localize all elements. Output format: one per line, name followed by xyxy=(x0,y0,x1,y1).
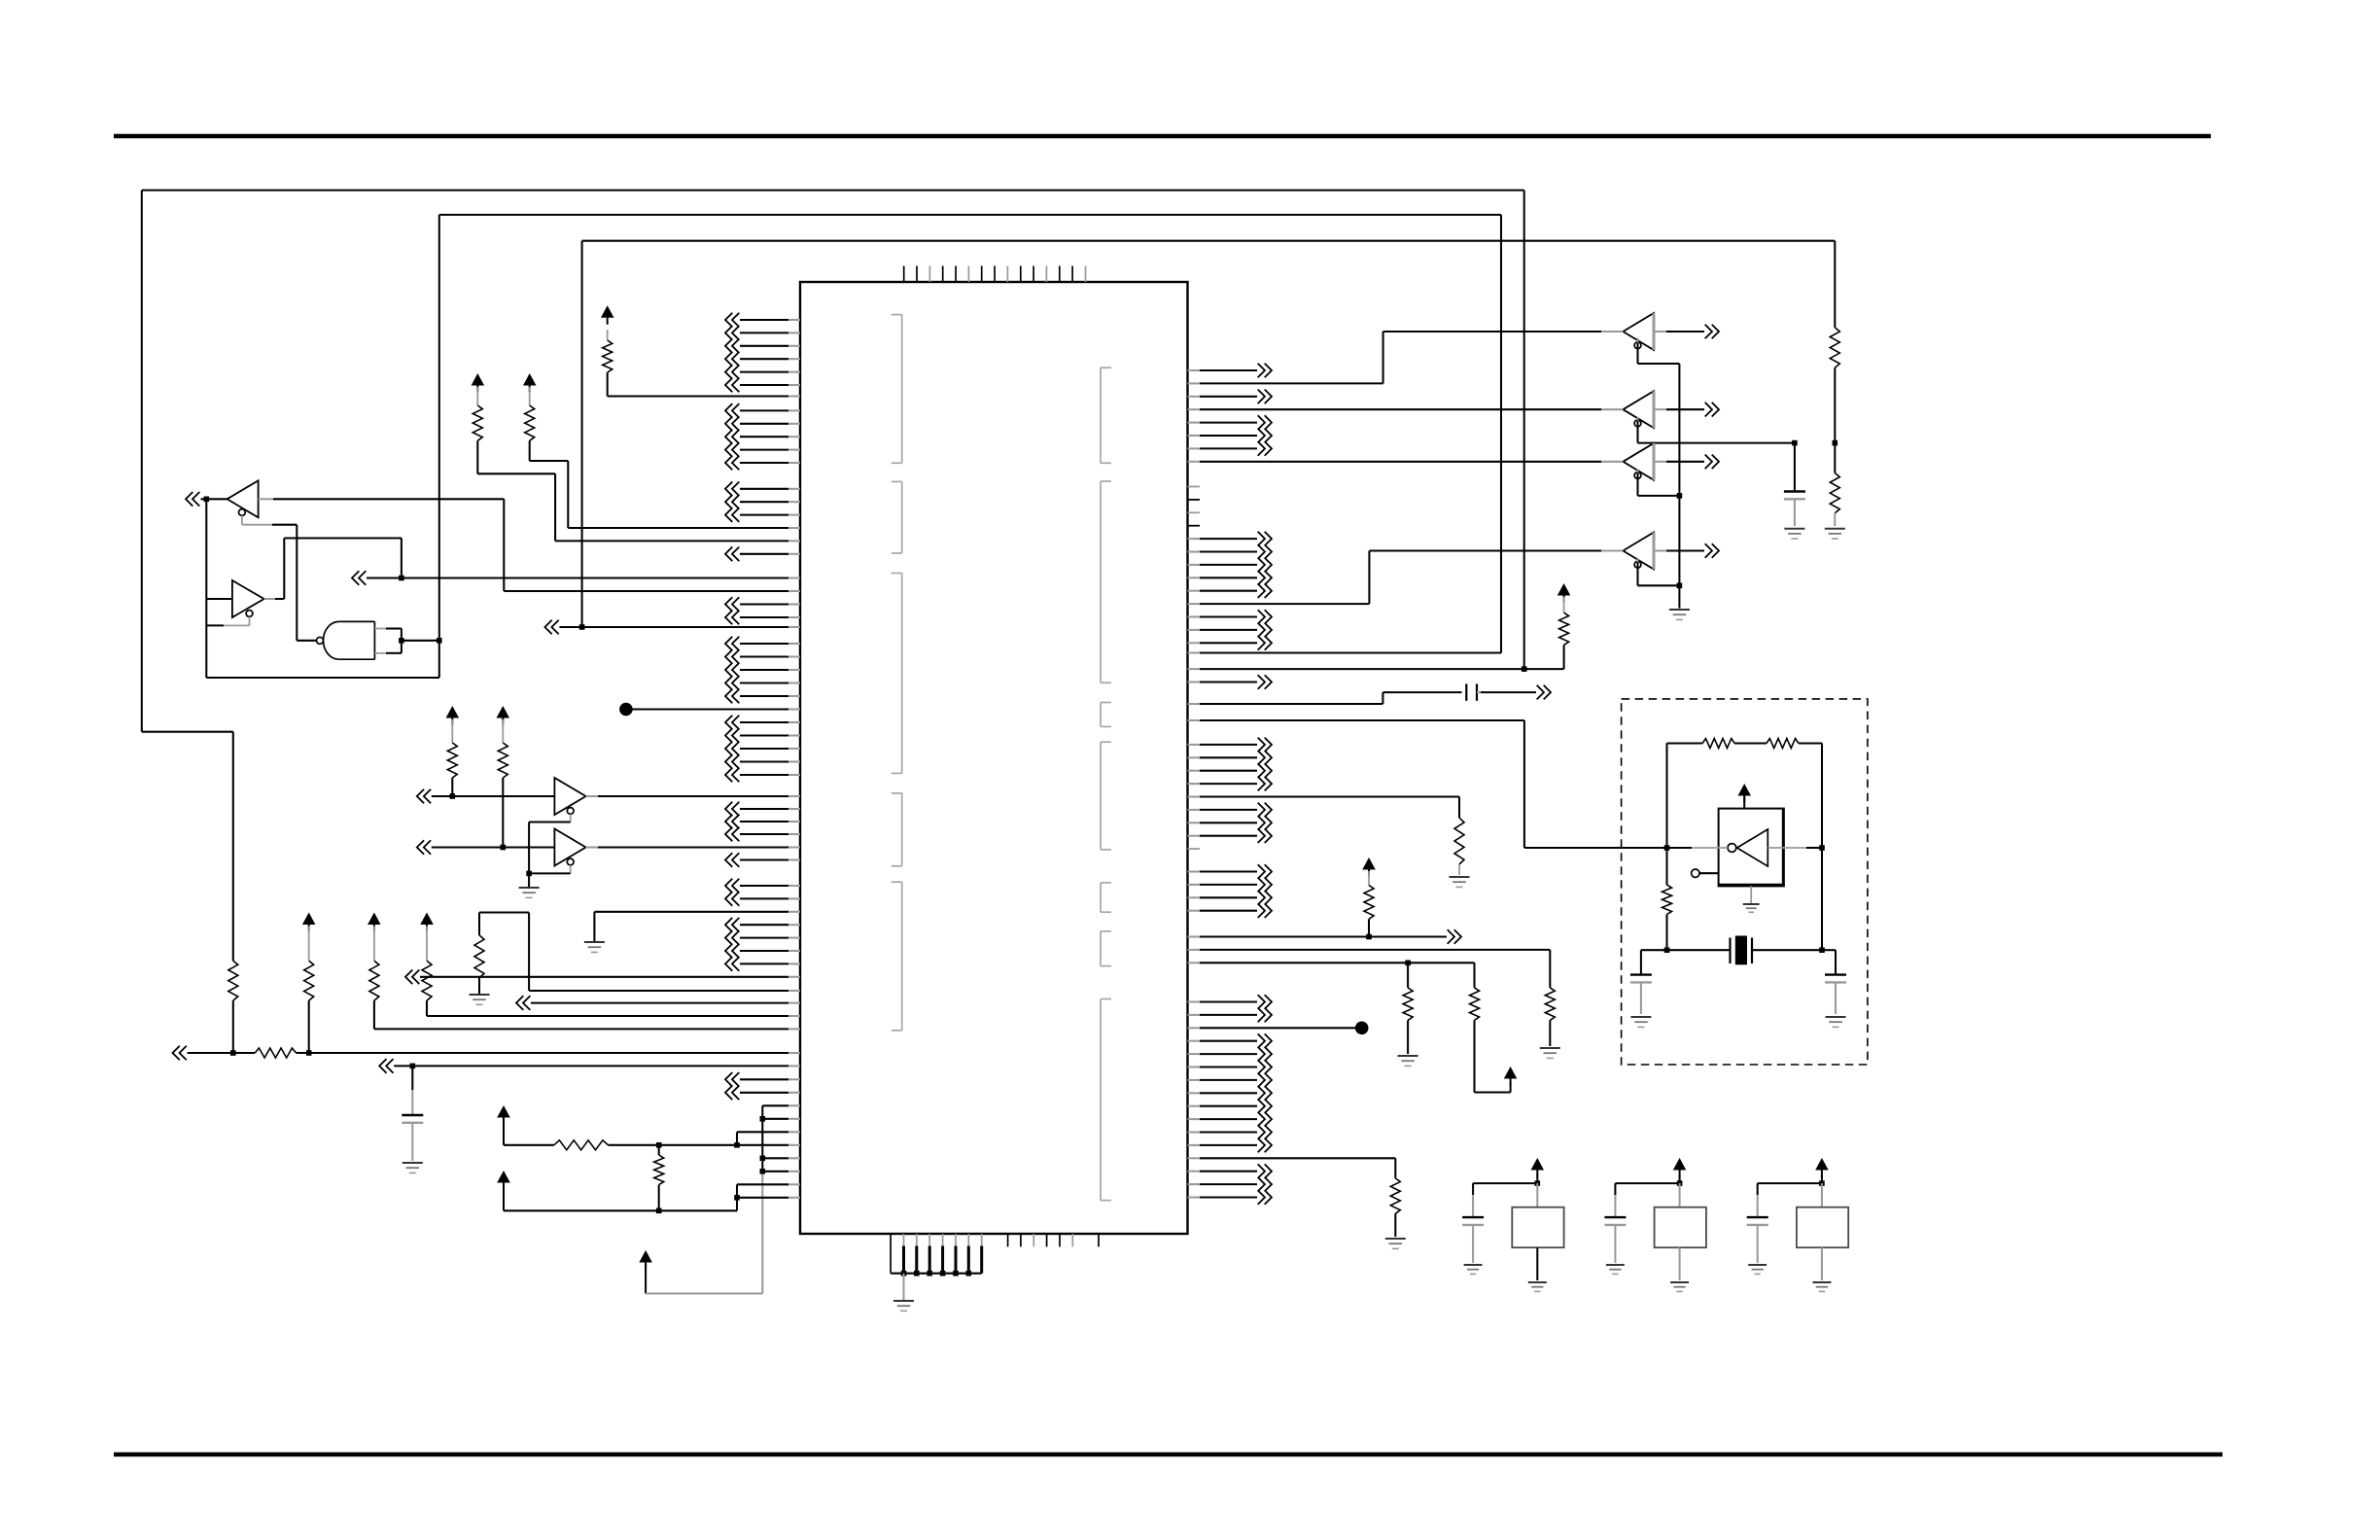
junction node W1 xyxy=(1792,440,1798,446)
tri-state buffer U9 xyxy=(1623,443,1719,480)
wire net pin688 xyxy=(1188,668,1564,670)
off-page connector U6 in xyxy=(417,840,555,855)
wire R11 tail xyxy=(658,1145,660,1211)
resistor R20 xyxy=(1545,988,1555,1021)
wire bus B xyxy=(737,1132,800,1198)
ground GND8 (osc) xyxy=(1743,904,1760,912)
wire R10 to bus xyxy=(609,1144,801,1146)
wire C7 tail xyxy=(1614,1225,1616,1263)
ground GND6 xyxy=(1784,529,1804,539)
wire osc right vertical xyxy=(1821,744,1823,951)
junction U4 input tie xyxy=(399,638,404,644)
wire U5 enable xyxy=(529,814,571,873)
resistor R15 xyxy=(1702,739,1734,749)
crystal Y1 xyxy=(1731,936,1753,965)
resistor R2 xyxy=(603,330,612,372)
border bottom rule xyxy=(114,1452,2222,1457)
power arrow VCC12 xyxy=(1362,857,1376,877)
wire net osc in xyxy=(1188,720,1667,848)
ground GND15 xyxy=(1464,1265,1483,1274)
resistor R13 xyxy=(1830,443,1839,526)
wire C6 tail xyxy=(1472,1225,1474,1263)
wire net1 top run xyxy=(142,191,1524,962)
enable stub U11 xyxy=(1692,869,1719,877)
resistor R22 xyxy=(1403,962,1413,1054)
wire U7 enable xyxy=(1638,338,1680,609)
resistor R23 xyxy=(1390,1178,1400,1213)
power arrow VCC U6 xyxy=(497,706,510,725)
wire R23 tail xyxy=(1394,1213,1396,1237)
junction U6 in xyxy=(501,845,507,851)
wire net1 left resistor tail xyxy=(232,1000,234,1053)
bus bracket right G xyxy=(1101,999,1111,1201)
junction G6 a xyxy=(230,1050,236,1056)
ground GND11 xyxy=(1450,877,1470,887)
wire U9 enable xyxy=(1638,469,1680,496)
resistor R8 xyxy=(304,927,314,1001)
ground GND14 xyxy=(1385,1239,1406,1248)
wire net pin1191 xyxy=(1188,1158,1396,1178)
IC U1 top pin stubs xyxy=(904,266,1086,283)
resistor R11 (shunt) xyxy=(654,1155,664,1185)
resistor R pullup U6 xyxy=(498,719,507,778)
power arrow VCC U5 xyxy=(446,706,460,725)
bus bracket left E xyxy=(892,882,902,1031)
wire block1 top xyxy=(1473,1183,1537,1217)
wire R7 to IC xyxy=(427,1000,800,1016)
power arrow VCC13 xyxy=(1504,1067,1518,1093)
enable bubble U6 xyxy=(567,858,574,865)
dashed enclosure (oscillator) xyxy=(1622,699,1868,1065)
wire osc feedback top xyxy=(1667,742,1823,744)
junction G3 xyxy=(579,624,585,630)
junction osc R2 xyxy=(1819,947,1825,953)
off-page connector U5 in xyxy=(417,789,555,804)
off-page connector G4 xyxy=(405,970,800,985)
wire osc cap right xyxy=(1822,950,1836,974)
ground GND19 xyxy=(1748,1265,1767,1274)
wire net2 loop xyxy=(206,215,1501,678)
wire U8 enable xyxy=(1638,417,1795,443)
capacitor C1 xyxy=(402,1115,423,1123)
wire R3 to IC pin xyxy=(530,440,800,528)
ground under IC bottom bus xyxy=(893,1301,914,1311)
tri-state buffer U8 xyxy=(1623,391,1719,428)
junction block3 xyxy=(1819,1180,1825,1186)
inverter U11 triangle xyxy=(1737,829,1768,866)
filter FL1 body xyxy=(1512,1207,1563,1248)
test point TP1 xyxy=(619,703,800,717)
inverter U11 bubble xyxy=(1728,844,1736,853)
wire U10 enable xyxy=(1638,558,1680,585)
junction block2 xyxy=(1677,1180,1683,1186)
wire U3 enable xyxy=(206,616,249,625)
bus bracket right C xyxy=(1101,703,1111,727)
capacitor C7 xyxy=(1604,1217,1626,1225)
wire G2 to IC xyxy=(402,577,800,578)
wire bus A xyxy=(761,1105,763,1172)
border top rule xyxy=(114,134,2211,139)
power arrow VCC3 xyxy=(472,373,485,393)
wire FL3 tail xyxy=(1821,1247,1823,1280)
power arrow VCC8 xyxy=(497,1171,510,1190)
junction U5 in xyxy=(450,793,456,799)
wire R8 tail xyxy=(308,1000,310,1053)
junction R10-R11 xyxy=(656,1142,662,1148)
resistor R9 (series) xyxy=(255,1048,296,1058)
wire busA pin rows xyxy=(762,1105,800,1172)
wire osc left vertical xyxy=(1665,744,1667,951)
IC U1 body xyxy=(800,282,1188,1234)
wire FL2 tail xyxy=(1679,1247,1681,1280)
junction busA 3 xyxy=(760,1169,766,1174)
ground GND4 xyxy=(402,1163,423,1172)
ground GND18 xyxy=(1670,1282,1689,1291)
off-page connector G3 xyxy=(544,620,581,635)
resistor R17 xyxy=(1662,885,1672,914)
wire U2 input xyxy=(259,499,800,591)
power arrow VCC2 xyxy=(523,373,537,393)
power arrow VCC9 xyxy=(639,1250,652,1270)
off-page connector G6 xyxy=(173,1046,256,1061)
buffer U6 (points right) xyxy=(554,829,585,866)
NAND gate U4 (mirrored) xyxy=(324,621,375,659)
junction osc R1 xyxy=(1819,845,1825,851)
wire U6 output xyxy=(586,846,800,848)
wire osc crystal row xyxy=(1667,949,1823,951)
wire VCC9 run xyxy=(646,1172,762,1294)
ground GND16 xyxy=(1528,1282,1547,1291)
wire R U6 to net xyxy=(502,778,504,848)
junction net2-NAND xyxy=(437,638,442,644)
ground GND2 xyxy=(584,942,605,952)
wire net3 top run xyxy=(582,241,1836,627)
off-page connector G5 xyxy=(516,996,800,1010)
wire U3 input xyxy=(206,598,232,600)
wire U11 in xyxy=(1667,847,1729,849)
resistor R4 xyxy=(472,387,482,440)
wire net gnd611 xyxy=(594,912,800,941)
junction osc L1 xyxy=(1664,845,1670,851)
junction pin963 xyxy=(1366,934,1372,940)
resistor R5 xyxy=(474,935,484,978)
resistor R7 xyxy=(422,927,432,1001)
wire block3 top xyxy=(1758,1183,1822,1217)
wire U11 gnd stub xyxy=(1750,886,1752,903)
enable bubble U5 xyxy=(567,808,574,815)
wire R6 to IC xyxy=(374,1000,800,1029)
wire U11 out xyxy=(1767,847,1822,849)
resistor R12 xyxy=(1830,328,1839,367)
junction pin990 xyxy=(1405,961,1411,966)
wire net pin990 xyxy=(1188,962,1475,988)
buffer U5 (points right) xyxy=(554,778,585,815)
enable bubble U2 xyxy=(239,509,246,516)
power arrow VCC14 xyxy=(1531,1158,1545,1183)
wire U7 input xyxy=(1188,332,1624,383)
wire U4 inputs xyxy=(374,629,402,653)
junction busA 1 xyxy=(760,1116,766,1122)
junction G2 xyxy=(399,576,404,581)
capacitor C6 xyxy=(1462,1217,1484,1225)
wire C3 out xyxy=(1477,685,1551,700)
wire net pin724 xyxy=(1188,692,1462,704)
junction G7 xyxy=(410,1064,416,1069)
junction U9 enable xyxy=(1677,493,1683,499)
buffer U3 (points right) xyxy=(232,580,264,617)
junction busB 2 xyxy=(734,1195,740,1201)
ground GND5 (enable bus) xyxy=(1669,610,1690,619)
junction G6 b xyxy=(306,1050,312,1056)
wire C8 tail xyxy=(1757,1225,1759,1263)
off-page connector G1 out xyxy=(186,492,227,507)
IC U1 bottom-left pin group with ground bus xyxy=(891,1234,982,1277)
resistor R19 xyxy=(1364,871,1374,937)
ground GND17 xyxy=(1606,1265,1625,1274)
wire U3 output loop xyxy=(264,539,402,600)
wire block2 top xyxy=(1615,1183,1679,1217)
bus bracket right B xyxy=(1101,481,1111,682)
wire U4 input net to box xyxy=(402,640,439,642)
output bubble U4 xyxy=(317,637,324,644)
capacitor C3 (series) xyxy=(1466,683,1477,700)
off-page connector G2 xyxy=(352,571,402,585)
junction busB 1 xyxy=(734,1142,740,1148)
inverter U11 box xyxy=(1719,809,1785,887)
ground GND3 xyxy=(470,995,490,1004)
wire net pin976 xyxy=(1188,950,1551,988)
power arrow VCC11 xyxy=(1738,784,1752,809)
enable bubble U3 xyxy=(246,611,253,617)
IC U1 left pins with off-page connectors xyxy=(725,313,800,1100)
wire net pin819 xyxy=(1188,797,1460,819)
ground GND10 xyxy=(1826,1017,1846,1027)
wire R U5 to net xyxy=(451,778,453,796)
power arrow VCC5 xyxy=(420,913,434,932)
wire cap drop xyxy=(411,1066,413,1115)
wire U6 enable xyxy=(529,865,571,874)
wire R2 to IC pin xyxy=(608,372,800,396)
ground GND20 xyxy=(1813,1282,1832,1291)
resistor R16 xyxy=(1767,739,1799,749)
junction node W2 xyxy=(1833,440,1838,446)
bus bracket right F xyxy=(1101,931,1111,966)
junction enable tie xyxy=(526,871,532,877)
junction net688 xyxy=(1522,666,1527,672)
junction R11 low xyxy=(656,1208,662,1214)
filter FL2 body xyxy=(1655,1207,1706,1248)
ground GND7 xyxy=(1825,529,1845,539)
ground GND enable xyxy=(519,888,540,897)
junction block1 xyxy=(1535,1180,1541,1186)
wire R18 tail xyxy=(1458,864,1460,875)
wire VCC8 run xyxy=(504,1184,737,1210)
resistor R1 (net1 pulldown left) xyxy=(228,961,238,1000)
bus bracket right D xyxy=(1101,742,1111,850)
resistor R18 xyxy=(1454,818,1464,864)
resistor R21 xyxy=(1470,988,1480,1021)
wire G1 vertical xyxy=(205,499,207,678)
tri-state buffer U10 xyxy=(1623,533,1719,570)
wire R5 to ground xyxy=(478,978,480,994)
wire C5 tail xyxy=(1835,982,1837,1014)
power arrow VCC1 xyxy=(601,305,614,325)
wire R5 net xyxy=(479,913,800,992)
power arrow VCC6 xyxy=(302,913,316,932)
tri-state buffer U2 (points left) xyxy=(227,480,259,517)
wire net pin963 xyxy=(1188,929,1462,944)
power arrow VCC7 xyxy=(497,1105,510,1125)
resistor R3 xyxy=(525,387,535,440)
junction osc L2 xyxy=(1664,947,1670,953)
wire enable to ground xyxy=(528,873,530,887)
capacitor C8 xyxy=(1747,1217,1768,1225)
test point TP2 xyxy=(1188,1022,1369,1035)
wire R20 tail xyxy=(1549,1020,1551,1046)
wire VCC7 run xyxy=(504,1119,554,1145)
resistor R10 (series) xyxy=(554,1140,609,1150)
wire U2 enable to NAND out xyxy=(242,515,297,640)
off-page connector G7 xyxy=(379,1059,800,1073)
ground GND13 xyxy=(1398,1056,1418,1066)
wire R21 to arrow xyxy=(1475,1020,1511,1092)
bus bracket right A xyxy=(1101,367,1111,463)
junction U10 enable xyxy=(1677,583,1683,589)
capacitor C2 branch xyxy=(1784,443,1805,526)
tri-state buffer U7 xyxy=(1623,313,1719,350)
ground GND12 xyxy=(1540,1048,1560,1058)
power arrow VCC15 xyxy=(1673,1158,1687,1183)
power arrow VCC4 xyxy=(367,913,381,932)
IC U1 bottom-right pin stubs xyxy=(1008,1234,1099,1246)
bus bracket left A xyxy=(892,315,902,464)
filter FL3 body xyxy=(1797,1207,1848,1248)
IC U1 right pins with off-page connectors xyxy=(1188,364,1273,1205)
wire U10 input xyxy=(1188,551,1624,605)
wire U8 input xyxy=(1188,408,1624,410)
resistor R6 xyxy=(369,927,379,1001)
wire C4 tail xyxy=(1640,982,1642,1014)
wire R4 to IC pin xyxy=(477,440,800,541)
wire FL1 tail xyxy=(1536,1247,1538,1280)
power arrow VCC10 xyxy=(1557,583,1571,603)
ground GND9 xyxy=(1630,1017,1651,1027)
wire G6 to IC xyxy=(297,1052,800,1054)
wire G3 to IC xyxy=(582,626,800,628)
bus bracket left C xyxy=(892,574,902,774)
junction G1 xyxy=(204,497,210,503)
wire U5 output xyxy=(586,795,800,797)
bus bracket left B xyxy=(892,481,902,553)
capacitor C4 xyxy=(1630,975,1652,983)
resistor R pullup U5 xyxy=(447,719,457,778)
wire ground bus drop xyxy=(903,1274,905,1301)
bus bracket left D xyxy=(892,793,902,866)
IC U1 right no-connect stubs xyxy=(1188,487,1201,850)
junction busA 2 xyxy=(760,1156,766,1162)
resistor R14 xyxy=(1559,597,1569,669)
wire C1 to ground xyxy=(411,1123,413,1161)
wire osc cap left xyxy=(1641,950,1667,974)
wire U4 output xyxy=(297,640,316,642)
bus bracket right E xyxy=(1101,883,1111,912)
capacitor C5 xyxy=(1825,975,1846,983)
wire U9 input xyxy=(1188,461,1624,463)
wire R12 to node xyxy=(1834,367,1836,442)
power arrow VCC16 xyxy=(1815,1158,1829,1183)
